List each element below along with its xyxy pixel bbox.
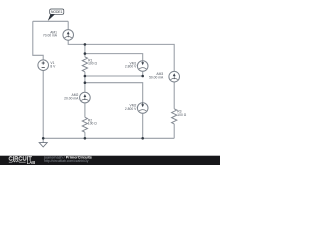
- node NODE1 flag: [48, 9, 64, 21]
- svg-text:http://circuitlab.com/czahbk3y: http://circuitlab.com/czahbk3y: [44, 159, 89, 163]
- wire AM3 bottom to R3: [173, 82, 175, 109]
- wire rail C: [85, 75, 143, 77]
- resistor R1: [82, 57, 87, 72]
- svg-text:70.00 mA: 70.00 mA: [43, 34, 58, 38]
- wire mid stub rail A to rail B: [84, 44, 86, 53]
- junction rail B / mid column: [84, 52, 87, 55]
- wire R3 bottom stub: [173, 124, 175, 138]
- ammeter AM3: [169, 71, 180, 82]
- svg-text:100 Ω: 100 Ω: [88, 122, 97, 126]
- wire AM1 top: [67, 21, 69, 29]
- resistor R3: [172, 109, 177, 124]
- junction rail A / mid column: [84, 43, 87, 46]
- wire rail B to VM1 top: [85, 54, 143, 62]
- wire R1 bottom through node C and D to AM2: [84, 72, 86, 93]
- ammeter AM1: [63, 30, 74, 41]
- junction R2 bottom rail: [84, 137, 87, 140]
- component labels: [43, 30, 187, 125]
- voltage source V1: [38, 60, 49, 71]
- wire left vertical: [33, 21, 43, 60]
- wire AM2 bottom to R2: [84, 103, 86, 117]
- svg-text:100 Ω: 100 Ω: [88, 62, 97, 66]
- junction ground: [42, 137, 45, 140]
- junction rail D / mid column: [84, 81, 87, 84]
- wire top rail from left corner to AM1: [33, 20, 68, 22]
- ammeter AM2: [80, 92, 91, 103]
- svg-text:2.800 V: 2.800 V: [125, 65, 137, 69]
- wire rail D to VM2 top: [85, 83, 143, 103]
- footer bar: [0, 156, 220, 165]
- footer CircuitLab logo: [9, 157, 36, 165]
- wire bottom rail: [43, 137, 174, 139]
- footer text: [43, 156, 92, 163]
- ground: [39, 143, 47, 147]
- wire R2 bottom stub: [84, 132, 86, 138]
- wire rail A to AM3: [85, 44, 174, 71]
- svg-text:20.00 mA: 20.00 mA: [64, 96, 79, 100]
- junction rail C / mid column: [84, 75, 87, 78]
- resistor R2: [82, 117, 87, 132]
- wire VM2 bottom: [142, 113, 144, 138]
- wire R1 top stub: [84, 54, 86, 57]
- junction rail C / VM1 bottom: [141, 75, 144, 78]
- svg-text:50.00 mA: 50.00 mA: [149, 76, 164, 80]
- svg-text:LAB: LAB: [27, 160, 35, 165]
- svg-text:8 V: 8 V: [50, 64, 56, 68]
- junction VM2 bottom rail: [141, 137, 144, 140]
- svg-text:NODE1: NODE1: [51, 10, 63, 14]
- wire VM1 bottom: [142, 72, 144, 76]
- wire AM1 bottom to rail A: [68, 40, 85, 44]
- svg-text:2.800 V: 2.800 V: [125, 107, 137, 111]
- node junction dots: [42, 43, 144, 140]
- wire V1 bottom to ground junction: [42, 71, 44, 139]
- voltmeter VM1: [137, 61, 148, 72]
- svg-text:100 Ω: 100 Ω: [177, 113, 186, 117]
- voltmeter VM2: [137, 103, 148, 114]
- wire ground stub: [42, 138, 44, 142]
